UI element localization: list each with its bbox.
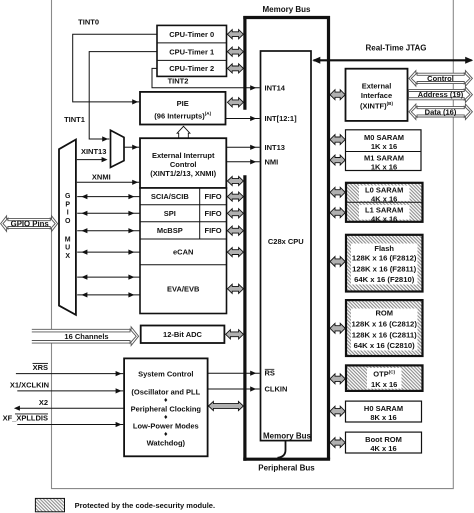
wire X2 output bbox=[16, 407, 125, 409]
svg-text:PIE: PIE bbox=[177, 99, 189, 108]
block Flash (hatched) bbox=[346, 235, 423, 292]
block H0 SARAM bbox=[346, 401, 422, 422]
svg-text:XINT13: XINT13 bbox=[81, 147, 106, 156]
wire GPIO mux to eCAN (bidirectional) bbox=[77, 251, 139, 253]
legend hatched box bbox=[35, 498, 64, 511]
gray arrow PIE to peripheral bus bbox=[227, 98, 243, 107]
gray arrow CPU-Timer0 to peripheral bus bbox=[227, 30, 243, 39]
block peripherals box bbox=[140, 188, 227, 314]
svg-text:XNMI: XNMI bbox=[92, 173, 111, 182]
svg-text:P: P bbox=[65, 201, 70, 208]
block External Interrupt Control bbox=[140, 138, 226, 188]
wire GPIO mux to EVB (bidirectional) bbox=[77, 294, 139, 296]
GPIO Pins arrow bbox=[1, 216, 58, 232]
block Boot ROM bbox=[346, 432, 422, 453]
memory bus top horizontal bbox=[243, 16, 330, 19]
svg-text:C28x CPU: C28x CPU bbox=[268, 237, 304, 246]
wire TINT2 (CPU-Timer2 to INT14) bbox=[152, 68, 260, 87]
svg-text:TINT2: TINT2 bbox=[168, 77, 189, 86]
svg-text:Control: Control bbox=[427, 74, 454, 83]
gray arrow McBSP FIFO to peripheral bus bbox=[227, 226, 243, 235]
svg-text:FIFO: FIFO bbox=[205, 226, 222, 235]
peripheral bus left vertical bbox=[243, 175, 246, 461]
gray arrow memory bus to Flash bbox=[330, 257, 345, 267]
block CPU-Timer group box bbox=[157, 25, 227, 76]
Address arrow bbox=[409, 87, 473, 103]
divider L0/L1 bbox=[346, 201, 423, 203]
gray arrow memory bus to L0 SARAM bbox=[330, 187, 345, 197]
ROM label bg bbox=[351, 309, 418, 351]
svg-text:♦: ♦ bbox=[164, 414, 168, 421]
svg-text:XF_XPLLDIS: XF_XPLLDIS bbox=[3, 414, 48, 423]
svg-text:G: G bbox=[65, 193, 71, 200]
svg-text:FIFO: FIFO bbox=[205, 209, 222, 218]
svg-text:128K x 16 (C2811): 128K x 16 (C2811) bbox=[352, 330, 417, 339]
gray arrow System Control to peripheral bus bbox=[208, 401, 243, 410]
svg-text:8K x 16: 8K x 16 bbox=[370, 413, 396, 422]
svg-text:Control: Control bbox=[170, 160, 197, 169]
wire TINT0 (CPU-Timer0 to PIE) bbox=[73, 34, 157, 102]
svg-text:1K x 16: 1K x 16 bbox=[371, 380, 397, 389]
divider eCAN/EVA bbox=[140, 264, 227, 266]
svg-text:M: M bbox=[65, 236, 71, 243]
svg-text:64K x 16 (C2810): 64K x 16 (C2810) bbox=[354, 341, 416, 350]
svg-text:Data (16): Data (16) bbox=[425, 107, 457, 116]
svg-text:4K x 16: 4K x 16 bbox=[370, 444, 396, 453]
svg-text:Address (19): Address (19) bbox=[418, 90, 464, 99]
svg-text:(XINT1/2/13, XNMI): (XINT1/2/13, XNMI) bbox=[150, 169, 216, 178]
svg-text:128K x 16 (C2812): 128K x 16 (C2812) bbox=[352, 319, 418, 328]
svg-text:X2: X2 bbox=[39, 398, 48, 407]
wire SysCtrl to RS bbox=[208, 372, 260, 374]
svg-text:128K x 16 (F2812): 128K x 16 (F2812) bbox=[352, 254, 417, 263]
svg-text:INT13: INT13 bbox=[265, 143, 285, 152]
wire GPIO mux to McBSP (bidirectional) bbox=[77, 230, 139, 232]
wire GPIO mux to SCIA (bidirectional) bbox=[77, 196, 139, 198]
gray arrow memory bus to ROM bbox=[330, 323, 345, 333]
svg-text:X: X bbox=[65, 253, 70, 260]
gray arrow SPI FIFO to peripheral bus bbox=[227, 209, 243, 218]
svg-text:16 Channels: 16 Channels bbox=[64, 332, 108, 341]
wire GPIO mux to SPI (bidirectional) bbox=[77, 212, 139, 214]
svg-text:4K x 16: 4K x 16 bbox=[371, 215, 397, 224]
block GPIO MUX bbox=[59, 140, 76, 315]
svg-text:FIFO: FIFO bbox=[205, 192, 222, 201]
wire GPIO mux to EVA (bidirectional) bbox=[77, 276, 139, 278]
gray arrow ExtInt to peripheral bus bbox=[227, 176, 243, 185]
memory bus curve connector from CPU bbox=[278, 441, 286, 458]
svg-text:Peripheral Clocking: Peripheral Clocking bbox=[131, 405, 202, 414]
svg-text:System Control: System Control bbox=[138, 370, 193, 379]
svg-text:M0 SARAM: M0 SARAM bbox=[364, 133, 404, 142]
svg-text:X1/XCLKIN: X1/XCLKIN bbox=[10, 381, 49, 390]
L1 label bg bbox=[359, 205, 410, 220]
wire XRS input bbox=[16, 373, 123, 375]
svg-text:NMI: NMI bbox=[265, 157, 279, 166]
svg-text:64K x 16 (F2810): 64K x 16 (F2810) bbox=[354, 275, 415, 284]
wire TINT1 (CPU-Timer1 to mux) bbox=[89, 52, 157, 139]
svg-text:SCIA/SCIB: SCIA/SCIB bbox=[151, 192, 190, 201]
svg-text:12-Bit ADC: 12-Bit ADC bbox=[163, 330, 202, 339]
gray arrow memory bus to Boot ROM bbox=[330, 438, 345, 448]
svg-text:CPU-Timer 1: CPU-Timer 1 bbox=[169, 47, 214, 56]
svg-text:L1 SARAM: L1 SARAM bbox=[365, 206, 403, 215]
block 12-Bit ADC bbox=[141, 326, 225, 344]
divider SCIA/SPI bbox=[140, 204, 227, 206]
wire XINT13 (GPIO mux to mux) bbox=[77, 159, 106, 161]
block OTP (hatched) bbox=[346, 365, 423, 391]
block System Control bbox=[124, 358, 208, 456]
svg-text:External Interrupt: External Interrupt bbox=[152, 151, 215, 160]
block ROM (hatched) bbox=[346, 300, 423, 356]
gray arrow memory bus to M1 SARAM bbox=[330, 155, 345, 165]
gray arrow memory bus to OTP bbox=[330, 374, 345, 384]
svg-text:Boot ROM: Boot ROM bbox=[365, 435, 402, 444]
svg-text:INT[12:1]: INT[12:1] bbox=[265, 114, 298, 123]
divider timer0/timer1 bbox=[157, 42, 227, 44]
svg-text:CPU-Timer 2: CPU-Timer 2 bbox=[169, 64, 214, 73]
svg-text:SPI: SPI bbox=[164, 209, 176, 218]
svg-text:CLKIN: CLKIN bbox=[265, 385, 288, 394]
divider FIFO column bbox=[199, 188, 201, 239]
block L0/L1 SARAM (hatched) bbox=[346, 183, 423, 222]
svg-text:TINT0: TINT0 bbox=[78, 17, 99, 26]
Flash label bg bbox=[351, 244, 418, 285]
Data arrow bbox=[409, 104, 473, 120]
svg-text:TINT1: TINT1 bbox=[64, 115, 85, 124]
16 Channels arrow bbox=[32, 327, 139, 346]
gray arrow memory bus to H0 SARAM bbox=[330, 406, 345, 416]
wire XNMI (GPIO mux to ExtInt) bbox=[77, 181, 139, 183]
svg-text:eCAN: eCAN bbox=[173, 248, 193, 257]
divider SPI/McBSP bbox=[140, 221, 227, 223]
svg-text:Watchdog): Watchdog) bbox=[147, 438, 186, 447]
peripheral bus bottom horizontal bbox=[243, 458, 330, 461]
svg-text:128K x 16 (F2811): 128K x 16 (F2811) bbox=[352, 264, 417, 273]
block External Interface XINTF bbox=[346, 69, 408, 121]
svg-text:GPIO Pins: GPIO Pins bbox=[11, 219, 50, 228]
svg-text:4K x 16: 4K x 16 bbox=[371, 195, 397, 204]
svg-text:1K x 16: 1K x 16 bbox=[371, 162, 397, 171]
wire ExtInt to INT13 bbox=[226, 146, 259, 148]
svg-text:Flash: Flash bbox=[374, 244, 394, 253]
OTP label bg bbox=[367, 368, 402, 389]
svg-text:I: I bbox=[67, 210, 69, 217]
svg-text:McBSP: McBSP bbox=[157, 226, 183, 235]
gray arrow memory bus to XINTF bbox=[330, 90, 345, 100]
memory bus right vertical bbox=[327, 16, 330, 459]
wire ExtInt to NMI bbox=[226, 161, 259, 163]
svg-text:(96 Interrupts)(A): (96 Interrupts)(A) bbox=[154, 111, 211, 121]
memory bus left vertical bbox=[243, 16, 246, 110]
wire PIE to INT[12:1] bbox=[226, 118, 260, 120]
svg-text:INT14: INT14 bbox=[265, 84, 286, 93]
svg-text:(Oscillator and PLL: (Oscillator and PLL bbox=[131, 388, 200, 397]
gray arrow ADC to peripheral bus bbox=[226, 330, 244, 339]
mux XINT13/TINT1 bbox=[111, 130, 125, 167]
svg-text:Memory Bus: Memory Bus bbox=[263, 432, 312, 441]
svg-text:♦: ♦ bbox=[164, 431, 168, 438]
svg-text:EVA/EVB: EVA/EVB bbox=[167, 285, 200, 294]
gray arrow CPU-Timer2 to peripheral bus bbox=[227, 64, 243, 73]
svg-text:H0 SARAM: H0 SARAM bbox=[364, 404, 403, 413]
svg-text:L0 SARAM: L0 SARAM bbox=[365, 186, 403, 195]
svg-text:XRS: XRS bbox=[33, 363, 48, 372]
block PIE bbox=[140, 92, 226, 125]
svg-text:CPU-Timer 0: CPU-Timer 0 bbox=[169, 30, 214, 39]
wire XF_XPLLDIS input bbox=[17, 424, 123, 426]
divider timer1/timer2 bbox=[157, 59, 227, 61]
divider M0/M1 bbox=[346, 151, 422, 153]
L0 label bg bbox=[359, 186, 410, 201]
gray arrow SCIA FIFO to peripheral bus bbox=[227, 192, 243, 201]
gray arrow memory bus to L1 SARAM bbox=[330, 208, 345, 218]
svg-text:Protected by the code-security: Protected by the code-security module. bbox=[75, 501, 215, 510]
block M0/M1 SARAM bbox=[346, 130, 422, 171]
gray arrow memory bus to M0 SARAM bbox=[330, 135, 345, 145]
svg-text:Low-Power Modes: Low-Power Modes bbox=[133, 422, 199, 431]
wire Real-Time JTAG (bidirectional) bbox=[314, 59, 472, 61]
svg-text:♦: ♦ bbox=[164, 397, 168, 404]
gray arrow EVA/EVB to peripheral bus bbox=[227, 284, 243, 293]
svg-text:1K x 16: 1K x 16 bbox=[371, 142, 397, 151]
wire mux output to ExtInt bbox=[124, 146, 139, 148]
Control arrow bbox=[409, 71, 473, 87]
wire X1/XCLKIN input bbox=[17, 390, 123, 392]
svg-text:RS: RS bbox=[265, 369, 275, 378]
svg-text:Interface: Interface bbox=[361, 91, 392, 100]
wire SysCtrl to CLKIN bbox=[208, 388, 260, 390]
svg-text:ROM: ROM bbox=[375, 309, 393, 318]
gray arrow CPU-Timer1 to peripheral bus bbox=[227, 47, 243, 56]
divider McBSP/eCAN bbox=[140, 238, 227, 240]
svg-text:Real-Time JTAG: Real-Time JTAG bbox=[365, 44, 426, 53]
svg-text:Peripheral Bus: Peripheral Bus bbox=[258, 464, 315, 473]
arrow ExtInt up to PIE bbox=[177, 126, 190, 138]
gray arrow eCAN to peripheral bus bbox=[227, 248, 243, 257]
svg-text:Memory Bus: Memory Bus bbox=[262, 5, 311, 14]
svg-text:U: U bbox=[65, 245, 70, 252]
svg-text:External: External bbox=[362, 82, 392, 91]
block C28x CPU bbox=[261, 51, 312, 441]
svg-text:O: O bbox=[65, 218, 71, 225]
